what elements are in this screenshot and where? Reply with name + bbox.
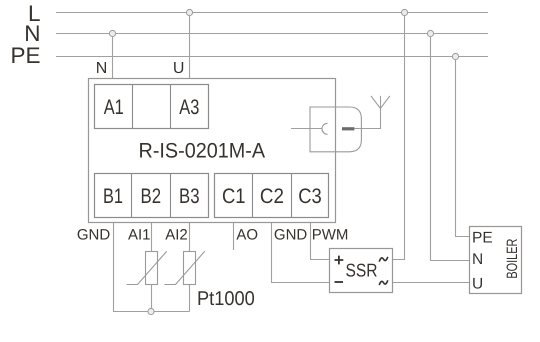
svg-text:B1: B1 — [103, 185, 123, 208]
svg-text:AI1: AI1 — [128, 227, 151, 244]
SSR tilde top — [379, 257, 388, 262]
wire clamp left stub — [291, 128, 322, 130]
wire SSR output to boiler U — [393, 282, 470, 284]
svg-text:C3: C3 — [298, 185, 322, 208]
svg-text:R-IS-0201M-A: R-IS-0201M-A — [139, 140, 266, 163]
boiler box — [470, 227, 522, 294]
terminal block C divider 1 — [252, 174, 254, 218]
svg-text:U: U — [173, 60, 185, 77]
terminal block B divider 2 — [170, 174, 172, 218]
node PE junction right — [452, 53, 458, 59]
node N junction right — [427, 30, 433, 36]
sensor Pt1000-1 diagonal — [127, 251, 167, 284]
terminal block A divider 2 — [170, 85, 172, 129]
node L junction right — [401, 9, 407, 15]
wire L bus — [56, 12, 488, 14]
wire GND C2 to SSR minus — [272, 223, 330, 283]
terminal block B outline — [95, 174, 209, 218]
svg-text:GND: GND — [77, 227, 111, 244]
svg-text:N: N — [96, 60, 108, 77]
wire AI1 from B2 to Pt1000 — [151, 223, 153, 252]
node GND sensor junction — [148, 308, 154, 314]
wire L drop to A3 — [189, 13, 191, 79]
svg-text:AO: AO — [236, 227, 258, 244]
current clamp body — [310, 107, 361, 152]
sensor Pt1000-2 diagonal — [165, 251, 205, 284]
current clamp arc — [322, 123, 328, 134]
terminal block A outline — [95, 85, 209, 129]
svg-text:U: U — [472, 275, 483, 292]
wire AO stub — [233, 223, 235, 251]
svg-text:BOILER: BOILER — [504, 238, 521, 278]
terminal block C outline — [215, 174, 329, 218]
SSR box — [330, 249, 393, 293]
svg-text:C2: C2 — [260, 185, 284, 208]
controller R-IS-0201M-A main box — [89, 79, 336, 223]
SSR minus sign — [335, 281, 344, 283]
wire Pt1000-1 bottom — [151, 285, 153, 312]
terminal block B divider 1 — [131, 174, 133, 218]
wire PWM C3 to SSR plus — [311, 223, 330, 260]
sensor Pt1000-2 body — [184, 252, 196, 285]
wire clamp to antenna — [355, 96, 381, 129]
svg-text:PE: PE — [472, 229, 493, 246]
svg-text:PWM: PWM — [312, 227, 349, 244]
svg-text:N: N — [472, 251, 483, 268]
svg-text:B3: B3 — [179, 185, 200, 208]
svg-text:C1: C1 — [222, 185, 246, 208]
antenna — [371, 96, 390, 109]
SSR plus sign — [335, 256, 344, 265]
node L junction — [186, 9, 192, 15]
current clamp core bar — [342, 127, 354, 130]
sensor Pt1000-1 body — [146, 252, 158, 285]
svg-text:A3: A3 — [179, 96, 199, 119]
svg-text:B2: B2 — [141, 185, 162, 208]
terminal block A divider 1 — [132, 85, 134, 129]
wire AI2 from B3 to Pt1000 — [189, 223, 191, 252]
SSR tilde bottom — [379, 280, 388, 285]
wire Pt1000-2 bottom — [189, 285, 191, 312]
wire N bus to boiler N — [431, 34, 470, 261]
svg-text:GND: GND — [274, 227, 308, 244]
svg-text:PE: PE — [10, 43, 40, 68]
svg-text:AI2: AI2 — [165, 227, 188, 244]
wire L bus to SSR input — [393, 13, 405, 260]
wire N drop to A1 — [112, 34, 114, 79]
svg-text:Pt1000: Pt1000 — [197, 288, 255, 310]
svg-text:A1: A1 — [104, 96, 124, 119]
wire PE bus to boiler PE — [456, 57, 470, 237]
node N junction — [109, 30, 115, 36]
wire PE bus — [56, 56, 488, 58]
svg-text:SSR: SSR — [346, 260, 378, 281]
terminal block C divider 2 — [291, 174, 293, 218]
wire N bus — [56, 33, 488, 35]
wire GND from B1 to sensors — [114, 223, 190, 312]
